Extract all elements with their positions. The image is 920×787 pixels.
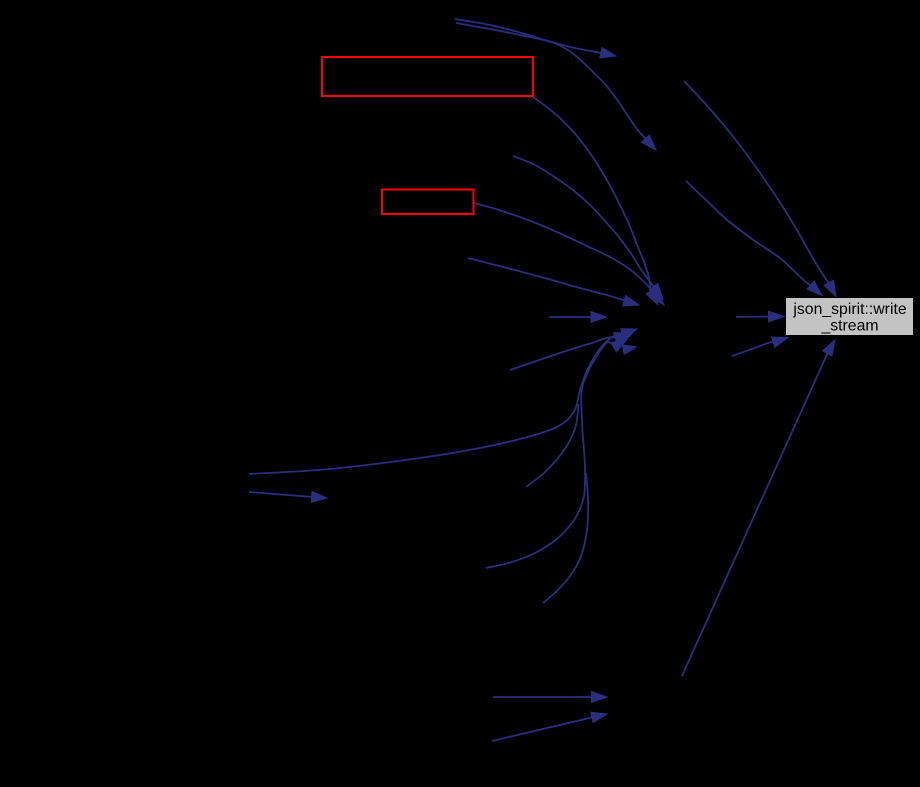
edge bottom node to write_stream: [682, 352, 828, 676]
edge caller 2 joins trunk: [526, 404, 579, 487]
edge mid caller to write node: [513, 156, 654, 288]
svg-text:json_spirit::write: json_spirit::write: [792, 301, 906, 318]
arrowhead bundle extra: [622, 345, 636, 354]
svg-text:_stream: _stream: [820, 318, 878, 335]
highlighted node json_spirit::write_stream: [786, 298, 914, 336]
truncated caller node (red box 1): [322, 57, 533, 96]
truncated caller node (red box 2): [382, 190, 474, 215]
edge top caller to node A: [455, 19, 602, 53]
edge formatted node to write_stream: [732, 341, 775, 356]
edge far-left caller to mid node: [249, 492, 313, 497]
edge node A to write_stream: [684, 81, 829, 284]
edge red node 1 to write node: [533, 97, 651, 293]
edge bottom caller 2 to bottom node: [492, 717, 593, 741]
edge far-left caller to write node trunk: [249, 333, 624, 474]
edge node B to write_stream: [686, 181, 812, 286]
edge caller 3 to write node trunk 2: [486, 342, 615, 568]
edge bottom caller 1 to bottom node: [493, 696, 593, 698]
edge red node 2 to write node: [474, 203, 655, 294]
edge caller 4 joins trunk 2: [543, 473, 588, 603]
arrowhead bundle mid fill: [616, 334, 632, 345]
edge write node to write_stream: [736, 316, 770, 319]
edge caller to write node top: [468, 258, 626, 301]
edge top caller to node B: [456, 23, 647, 140]
edge caller to write node lower: [510, 337, 617, 370]
edge caller to write node left: [549, 316, 593, 318]
